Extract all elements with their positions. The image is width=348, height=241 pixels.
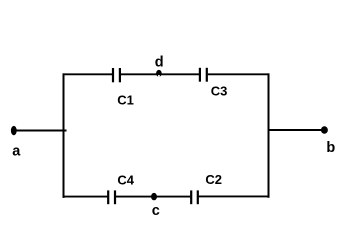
capacitor C3 bbox=[200, 68, 207, 82]
wire: C1 to C3 segment bbox=[121, 73, 199, 75]
svg-text:c: c bbox=[152, 203, 160, 219]
wire: a lead bbox=[15, 130, 67, 132]
wire: left vertical bbox=[63, 73, 65, 197]
wire: top-left segment bbox=[63, 73, 113, 75]
svg-text:C1: C1 bbox=[117, 92, 134, 107]
svg-text:C2: C2 bbox=[205, 172, 222, 187]
terminal a bbox=[11, 126, 17, 135]
node d bbox=[156, 70, 162, 77]
svg-text:C4: C4 bbox=[117, 173, 134, 188]
wire: bottom-right segment bbox=[199, 195, 270, 197]
terminal b bbox=[321, 126, 328, 134]
wire: C4 to C2 segment bbox=[116, 196, 190, 198]
wire: bottom-left segment bbox=[63, 196, 108, 198]
svg-text:d: d bbox=[155, 55, 164, 71]
node c bbox=[151, 193, 157, 200]
wire: b lead bbox=[268, 129, 323, 131]
wire: right vertical bbox=[268, 73, 270, 197]
capacitor C2 bbox=[191, 190, 198, 204]
capacitor C4 bbox=[108, 190, 115, 204]
wire: top-right segment bbox=[208, 73, 270, 75]
svg-text:a: a bbox=[12, 143, 21, 159]
svg-text:b: b bbox=[326, 140, 335, 156]
svg-text:C3: C3 bbox=[211, 83, 228, 98]
capacitor C1 bbox=[113, 68, 120, 82]
